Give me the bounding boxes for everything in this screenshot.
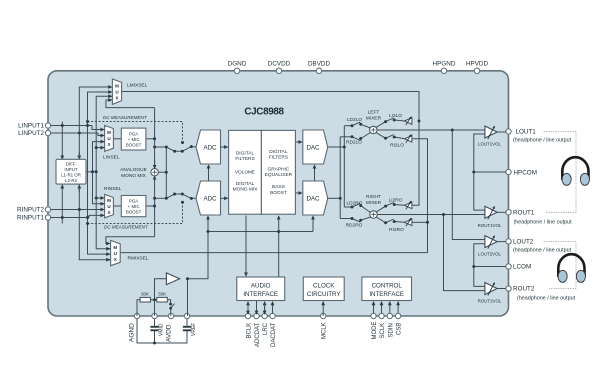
wire DIFF box output [86,171,96,173]
wire LRC bidirectional [264,302,266,314]
wire arrow into mono mix top [154,160,156,169]
switch LI2RO [386,202,394,206]
amp LOUT2VOL [478,236,501,257]
svg-text:DIGITAL: DIGITAL [236,181,255,187]
pin ADCDAT [254,313,261,347]
wire RINPUT2 to DIFF input [78,185,80,192]
wire equaliser to DAC2 [295,192,302,194]
DAC left (DAC1) [303,130,328,164]
svg-text:AGND: AGND [129,323,136,342]
wire RI2RO amp to switch [394,221,405,224]
pin MCLK [321,313,328,339]
switch RI2LO [386,135,394,139]
svg-text:LOUT1: LOUT1 [516,129,537,136]
wire VMID external cap top [154,319,156,326]
wire VMID node up to buffer [155,279,167,300]
svg-text:RI2LO: RI2LO [390,142,404,148]
svg-text:PGA: PGA [129,131,138,136]
svg-text:RMIXSEL: RMIXSEL [128,256,149,262]
svg-text:ADC: ADC [203,144,217,151]
wire PGA1 out [146,138,155,140]
svg-text:PGA: PGA [129,198,138,203]
wire VREF external cap top [186,319,188,326]
wire LOUT1VOL output to pin [497,131,506,133]
wire RINPUT1 line [51,217,89,219]
wire VMID branch up into DAC2 [312,216,314,232]
pin ROUT2 [506,286,576,302]
wire DAC1 output [328,146,345,148]
wire audio interface to filters box [245,216,247,277]
svg-text:+ MIC: + MIC [128,204,140,209]
svg-text:FILTERS: FILTERS [235,156,254,162]
pin HPCOM [506,169,537,176]
wire LD2LO into left mixer [361,124,370,128]
mux LINSEL [101,125,120,160]
switch AVDD lever [171,304,175,309]
svg-text:DBVDD: DBVDD [308,61,330,68]
svg-text:M: M [107,130,111,135]
svg-text:BOOST: BOOST [126,209,142,214]
svg-text:LINSEL: LINSEL [103,155,120,161]
wire stub RINSEL in2 [93,172,105,204]
svg-text:DIGITAL: DIGITAL [269,149,288,155]
pin DCVDD [268,61,291,74]
wire left mixer to RI2LO switch [376,133,386,139]
wire LINPUT1 vertical down to RMIXSEL in4 [79,133,110,260]
amp ROUT2VOL [478,283,502,304]
wire VMID rail branch horizontal [208,231,313,233]
wire switch to AVDD pin [170,308,172,316]
wire SCLK to control interface [381,302,383,314]
pin ROUT1 [506,210,572,226]
svg-text:DC MEASUREMENT: DC MEASUREMENT [104,225,149,230]
wire VMID branch up into equaliser box [278,216,280,277]
amp LI2RO volume [404,201,412,209]
svg-text:RIGHT: RIGHT [366,194,381,200]
wire left mixer to LI2LO switch [376,122,386,128]
wire LINPUT2 to LMIXSEL in2 [88,92,112,126]
svg-text:ROUT1: ROUT1 [513,210,535,217]
pin HPGND [433,61,456,74]
wire BCLK bidirectional [247,302,249,314]
wire RD2LO feed [340,136,352,138]
svg-text:CJC8988: CJC8988 [244,106,284,117]
box digital filters / volume / digital mono mix [229,130,262,214]
svg-text:BOOST: BOOST [270,190,287,196]
pin LOUT2 [506,239,572,254]
svg-text:MONO MIX: MONO MIX [233,187,259,193]
pin RINPUT2 [17,207,51,214]
svg-text:RD2RO: RD2RO [346,223,363,229]
switch LD2RO [352,203,360,207]
wire DC measurement dashed bottom [88,202,183,223]
wire LOUT2VOL output to pin [497,241,506,243]
svg-text:(headphone / line output: (headphone / line output [517,296,576,302]
pin RINPUT1 [17,215,51,222]
svg-text:(headphone / line output: (headphone / line output [513,138,572,144]
wire mono mix output tee [158,171,166,173]
svg-text:RINPUT1: RINPUT1 [17,215,44,222]
svg-text:MIXER: MIXER [366,116,382,122]
svg-text:AVDD: AVDD [166,324,173,342]
svg-text:BOOST: BOOST [126,142,142,147]
wire mono mix tee vertical [165,147,167,198]
wire RMIXSEL output bypass to right mixer amps [120,139,427,253]
box CONTROL INTERFACE [362,277,412,301]
wire SDIN to control interface [389,302,391,314]
wire MODE to control interface [373,302,375,314]
wire VMID node down to pin [154,300,156,316]
chip body CJC8988 [48,71,509,316]
wire LMIXSEL output bypass to left mixer amps [122,92,419,206]
wire LCOM net [474,244,485,287]
switch LD2LO [352,122,360,126]
amp LI2LO volume [404,117,412,125]
wire LINPUT2 line [51,132,98,134]
wire LI2RO amp to switch [394,204,405,207]
svg-text:RINSEL: RINSEL [104,186,122,192]
svg-text:ANALOGUE: ANALOGUE [120,167,147,173]
wire DC tap vertical top [87,122,89,126]
pin SDIN [387,313,394,337]
wire vertical to LMIXSEL in3 [96,96,111,172]
svg-text:LOUT2: LOUT2 [513,239,534,246]
junction dots left section [61,120,193,225]
svg-text:CIRCUITRY: CIRCUITRY [307,291,341,298]
analogue mono mix summing node [120,167,158,179]
wire LINPUT1 to LINSEL in1 [92,126,104,130]
svg-text:+ MIC: + MIC [128,137,140,142]
headphones icon 2 [558,254,586,282]
wire DAC2 output [328,197,341,199]
wire ADC2 to filters [221,197,228,199]
svg-text:VREF: VREF [191,323,197,336]
wire HPCOM tap to pin [474,171,506,173]
svg-text:MONO MIX: MONO MIX [121,173,147,179]
svg-text:ROUT1VOL: ROUT1VOL [478,223,502,228]
wire PGA2 out to RMIXSEL in1 [106,237,155,244]
svg-text:INTERFACE: INTERFACE [243,291,278,298]
pin LOUT1 [506,129,572,144]
svg-text:M: M [107,198,111,203]
svg-text:EQUALISER: EQUALISER [265,172,293,178]
ADC right (ADC2) [196,181,221,215]
box AUDIO INTERFACE [237,277,285,301]
headphones icon 1 [562,157,590,185]
svg-text:LI2LO: LI2LO [389,113,402,119]
wire DC measurement dashed top [88,122,183,143]
switch LI2LO [386,118,394,122]
pin MODE [371,313,378,339]
amp RI2RO volume [404,218,412,226]
summing node left mixer [366,110,382,134]
svg-text:DAC: DAC [306,144,320,151]
DAC right (DAC2) [303,181,328,215]
ADC left (ADC1) [196,130,221,164]
junction dots right section [339,119,476,269]
svg-text:FILTERS: FILTERS [269,155,288,161]
svg-text:M: M [115,84,119,89]
resistor 50K left [140,291,151,302]
pin SCLK [379,313,386,338]
wire PGA2 up into mono mix bottom [154,176,156,206]
svg-text:LINPUT2: LINPUT2 [18,130,44,137]
pin HPVDD [466,61,488,74]
pin LINPUT1 [18,123,51,130]
wire main vertical PGA1/PGA2 node [154,108,156,168]
wire LINPUT1 to LMIXSEL in1 [79,87,111,133]
wire ADC2 switch feed [155,197,167,199]
wire RINPUT2 line [51,209,104,211]
wire LINPUT2 to LINSEL in2 [98,133,104,136]
wire RINPUT1 to DIFF input [61,185,63,224]
svg-text:LOUT1VOL: LOUT1VOL [478,142,501,147]
svg-text:MIXER: MIXER [366,200,382,206]
wire stub RINSEL in1 [96,197,104,199]
wire AGND to resistor chain [137,300,140,316]
pin LRC [262,313,269,335]
amp LOUT1VOL [478,126,501,147]
wire right mixer to LI2RO switch [376,206,385,212]
wire right mixer branch down to ROUT2VOL [444,215,485,291]
wire CSB to control interface [397,302,399,314]
wire DACDAT in [272,302,274,314]
wire left mixer output to LOUT1VOL [377,129,485,131]
wire LINSEL out to PGA1 [113,138,121,140]
svg-text:SCLK: SCLK [380,323,386,339]
bracket headphone output 2 [544,241,576,288]
pin AVDD [166,313,174,342]
svg-text:ROUT2VOL: ROUT2VOL [478,299,502,304]
svg-text:LEFT: LEFT [368,110,380,116]
svg-text:LINPUT1: LINPUT1 [18,123,44,130]
svg-text:CLOCK: CLOCK [313,283,335,290]
svg-text:CSB: CSB [397,323,403,335]
wire right mixer to RI2RO switch [376,217,385,223]
pin VMID [152,313,165,336]
wire LD2LO feed [344,125,352,127]
svg-text:RD2LO: RD2LO [346,140,362,146]
switch RD2RO [352,219,360,223]
wire DIFF out down to RMIXSEL in2 [96,172,110,249]
wire RD2RO into right mixer [361,217,371,220]
op-amp VMID buffer [166,273,179,285]
pin DBVDD [308,61,330,74]
mux RINSEL [101,186,122,218]
svg-text:INPUT: INPUT [64,167,77,172]
wire LI2LO amp to switch [394,120,405,121]
svg-text:50K: 50K [158,291,166,296]
svg-text:M: M [113,245,117,250]
svg-text:ADC: ADC [203,196,217,203]
svg-text:DIGITAL: DIGITAL [236,150,255,156]
svg-text:HPVDD: HPVDD [466,61,488,68]
wire PGA2 out [146,205,155,207]
svg-text:DGND: DGND [228,61,247,68]
resistor 50K right [157,291,168,302]
mux RMIXSEL [107,240,149,265]
wire between 50K resistors [151,299,157,301]
capacitor VREF [183,327,191,331]
wire RD2RO feed [340,218,352,220]
wire HPCOM net [474,134,485,210]
wire DAC2 vertical to both mixers [339,137,341,219]
box DIFF INPUT [56,159,86,184]
wire RI2LO amp to switch [394,137,405,139]
svg-text:L2-R2: L2-R2 [65,178,78,183]
bracket headphone output 1 [544,132,576,213]
box CLOCK CIRCUITRY [303,277,344,301]
svg-text:VOLUME: VOLUME [235,170,255,176]
svg-text:LD2LO: LD2LO [347,117,362,123]
switch ADC1 select [166,147,196,152]
wire VMID buffer down to VREF pin [187,279,189,316]
svg-text:CONTROL: CONTROL [372,283,403,290]
svg-text:BCLK: BCLK [247,323,253,339]
svg-text:DIFF.: DIFF. [66,162,77,167]
svg-text:BASS: BASS [272,184,285,190]
svg-text:GRAPHIC: GRAPHIC [267,167,289,173]
svg-text:LCOM: LCOM [513,264,531,271]
amp ROUT1VOL [478,206,502,228]
wire LINPUT2 vertical down to RMIXSEL in3 [88,126,111,255]
wire LINPUT1 line [51,125,92,127]
svg-text:DAC: DAC [306,196,320,203]
junction dots center [153,230,280,345]
wire PGA out to LMIXSEL in4 [106,100,155,108]
wire equaliser to DAC1 [295,141,302,143]
wire LINPUT1 to DIFF input [61,122,63,160]
svg-text:L1-R1 OR: L1-R1 OR [61,173,81,178]
wire AGND external down [137,319,187,343]
wire right mixer output to ROUT1VOL [377,214,485,216]
svg-text:VMID: VMID [159,323,165,336]
svg-text:RI2RO: RI2RO [389,227,404,233]
box digital filters / graphic equaliser / bass boost [261,130,295,214]
pin CSB [395,313,402,335]
wire LCOM tap to pin [474,266,506,268]
pin DGND [228,61,247,74]
svg-text:DC MEASUREMENT: DC MEASUREMENT [103,115,148,120]
mux LMIXSEL [109,79,148,104]
svg-text:HPCOM: HPCOM [514,170,537,177]
wire ROUT2VOL output to pin [497,288,506,290]
svg-text:LOUT2VOL: LOUT2VOL [478,252,501,257]
amp RI2LO volume [404,135,412,143]
svg-text:ROUT2: ROUT2 [513,286,535,293]
wire PGA2 down to RMIXSEL elbow [154,206,156,237]
wire left mixer branch down to LOUT2VOL [452,130,485,240]
wire RINPUT2 to RINSEL in3 [101,209,104,211]
wire ADC1 to filters [221,146,228,148]
switch ADC2 select [166,194,196,198]
svg-text:INTERFACE: INTERFACE [369,291,404,298]
svg-text:(headphone / line output: (headphone / line output [513,248,572,254]
wire stub LINSEL in4 [96,147,104,149]
pin BCLK [245,313,252,338]
box PGA + MIC BOOST (left) [121,128,146,150]
wire RINPUT1 to RINSEL in4 [89,215,104,217]
wire LD2RO into right mixer [361,206,371,213]
pin LINPUT2 [18,130,51,137]
svg-text:MCLK: MCLK [322,322,328,339]
wire ADC2 top to ADC1 bottom [208,165,210,181]
summing node right mixer [366,194,382,218]
svg-text:HPGND: HPGND [433,61,456,68]
wire ADC1 switch feed [155,146,167,148]
wire DAC1 vertical to both mixers [343,126,345,207]
svg-text:50K: 50K [141,291,149,296]
svg-text:(headphone / line output: (headphone / line output [514,220,573,226]
svg-text:LI2RO: LI2RO [389,198,403,204]
wire RD2LO into left mixer [361,133,371,139]
wire RINSEL out to PGA2 [113,205,121,207]
wire DC tap vertical bottom [87,218,89,224]
svg-text:SDIN: SDIN [388,323,394,337]
svg-text:MODE: MODE [372,322,378,340]
svg-text:RINPUT2: RINPUT2 [17,207,44,214]
wire RI2RO amp feed from bypass [412,221,427,223]
pin VREF [184,313,197,336]
wire ROUT1VOL output to pin [497,211,506,213]
switch RD2LO [352,137,360,141]
svg-text:LRC: LRC [263,322,269,335]
wire LD2RO feed [344,206,352,208]
switch RI2RO [386,219,394,223]
svg-text:DCVDD: DCVDD [268,61,291,68]
capacitor VMID [150,327,158,331]
svg-text:DACDAT: DACDAT [271,322,277,347]
wire MCLK to clock circuitry [322,302,324,316]
wire VMID external cap bottom [154,331,156,343]
svg-text:AUDIO: AUDIO [251,283,271,290]
pin LCOM [506,264,531,271]
wire LINPUT2 to DIFF input [78,152,80,159]
wire stub LINSEL in3 [93,142,105,172]
svg-text:LMIXSEL: LMIXSEL [127,83,148,89]
wire DAC2 top to DAC1 bottom [314,165,316,181]
wire resistor to AVDD switch [168,300,171,304]
wire VMID buffer output rail up to ADC2 [188,216,209,279]
svg-text:ADCDAT: ADCDAT [255,322,261,347]
pin DACDAT [270,313,277,347]
pin AGND [129,313,140,342]
wire ADCDAT out [256,301,258,315]
box PGA + MIC BOOST (right) [121,196,146,217]
